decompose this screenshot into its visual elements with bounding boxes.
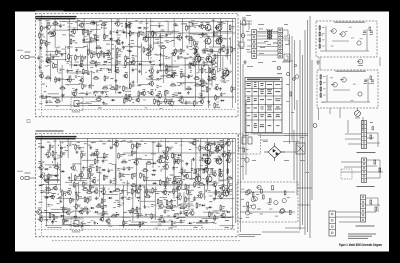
gap note text [27, 120, 30, 123]
right channel top label [219, 22, 222, 25]
left channel resistor R142 [157, 198, 162, 205]
left channel resistor R212 [215, 189, 220, 196]
right channel output transistor Q94 [194, 54, 201, 63]
right channel diode D118 [138, 63, 143, 65]
right channel resistor R52 [89, 21, 96, 24]
left channel junction [186, 205, 187, 206]
right channel transistor Q9 [45, 23, 51, 30]
left channel mid bus wire [69, 184, 213, 186]
left channel junction [58, 194, 59, 195]
left channel electrolytic C6 [40, 191, 45, 193]
right channel value label [40, 60, 44, 63]
left channel value label [162, 180, 166, 183]
right channel transistor Q93 [114, 67, 119, 74]
right channel electrolytic C195 [206, 49, 211, 51]
right channel value label [75, 61, 79, 64]
right channel value label [103, 63, 106, 66]
left channel value label [49, 166, 52, 169]
right channel wire h6 [94, 91, 109, 93]
right channel value label [175, 94, 178, 97]
right channel input jack [17, 50, 35, 59]
right channel value label [215, 62, 217, 65]
right channel resistor R219 [231, 46, 236, 53]
left channel wire h6 [135, 221, 146, 223]
left channel value label [204, 159, 207, 162]
right channel value label [156, 54, 159, 57]
right channel resistor R21 [53, 62, 58, 69]
right channel resistor R117 [138, 31, 143, 38]
left channel transistor Q208 [214, 146, 219, 153]
right channel value label [111, 48, 114, 51]
left channel wire v1b [43, 173, 45, 182]
right channel value label [86, 22, 89, 25]
left channel diode D66 [90, 207, 95, 209]
right channel value label [61, 48, 65, 51]
left channel value label [162, 150, 166, 153]
right channel value label [226, 52, 229, 55]
left channel right bus wire 2 [235, 139, 237, 223]
right channel capacitor C5 [37, 55, 43, 60]
power transformer T1 [267, 29, 272, 40]
left channel value label [176, 217, 179, 220]
right channel value label [165, 70, 168, 73]
left channel top label [38, 142, 40, 145]
left channel wire h59 [65, 181, 72, 183]
left channel transistor Q200 [204, 158, 209, 165]
left channel ground [213, 197, 216, 200]
right channel resistor R12 [46, 57, 51, 64]
right channel wire h25 [143, 36, 163, 38]
left channel transistor Q220 [219, 184, 225, 191]
right channel junction [101, 27, 102, 28]
left channel wire v11a [111, 139, 113, 149]
right channel resistor R169 [186, 25, 191, 32]
right channel value label [210, 69, 213, 72]
right channel wire h11 [50, 24, 61, 26]
right channel diode D39 [73, 64, 78, 66]
left channel capacitor C20 [54, 156, 60, 161]
right channel electrolytic C136 [159, 35, 164, 37]
left channel top label [152, 141, 156, 144]
left channel ground [216, 158, 219, 161]
left channel value label [93, 154, 95, 157]
left channel electrolytic C49 [79, 147, 84, 149]
right channel resistor R203 [214, 53, 219, 60]
left channel value label [138, 188, 142, 191]
right channel resistor R56 [91, 52, 96, 59]
right channel output transistor Q93 [215, 36, 222, 45]
right channel value label [172, 30, 175, 33]
left channel value label [190, 204, 194, 207]
right channel transistor Q156 [171, 50, 176, 57]
right channel wire v22a [188, 22, 190, 45]
connector area wires [336, 133, 383, 222]
left channel resistor R74 [96, 204, 103, 207]
right channel value label [199, 92, 203, 95]
middle area labels [240, 15, 309, 173]
right channel value label [225, 55, 227, 58]
left channel junction [193, 158, 194, 159]
left channel resistor R28 [61, 151, 66, 158]
right channel value label [71, 91, 74, 94]
right channel value label [161, 42, 163, 45]
left channel resistor R14 [45, 187, 52, 190]
left channel diode D166 [177, 154, 182, 156]
left channel wire h31 [213, 210, 228, 212]
right channel wire h40 [156, 101, 175, 103]
right channel resistor R78 [102, 86, 109, 89]
left channel resistor R40 [75, 144, 80, 151]
right channel resistor R183 [193, 76, 200, 79]
right channel value label [69, 69, 73, 72]
right channel resistor R124 [143, 46, 148, 53]
right channel top label [166, 20, 169, 23]
right channel value label [85, 101, 89, 104]
left channel value label [43, 160, 45, 163]
right channel top label [197, 20, 199, 23]
right channel ground [158, 24, 161, 27]
right channel value label [75, 42, 77, 45]
left channel resistor R121 [137, 212, 142, 219]
left channel top label [220, 139, 224, 142]
right channel transistor Q128 [146, 45, 152, 53]
left channel value label [53, 153, 56, 156]
left channel value label [122, 153, 125, 156]
right channel value label [106, 85, 108, 88]
right channel ground [132, 81, 135, 84]
right channel electrolytic C69 [93, 92, 98, 94]
misc parts right of table [286, 72, 295, 113]
left channel value label [153, 153, 156, 156]
left channel top label [180, 140, 183, 143]
right channel wire v5b [71, 57, 73, 68]
right channel transistor Q131 [148, 73, 153, 79]
left channel resistor R54 [82, 187, 89, 190]
left channel wire h25 [119, 224, 139, 226]
left channel top label [53, 140, 56, 143]
left channel top label [167, 140, 169, 143]
right channel capacitor C61 [93, 21, 99, 26]
right channel value label [45, 65, 48, 68]
left channel value label [231, 152, 235, 155]
left channel transistor Q144 [158, 215, 164, 223]
left channel value label [51, 188, 53, 191]
left channel wire v6a [75, 185, 77, 221]
left channel transistor Q39 [65, 209, 70, 216]
right channel value label [145, 106, 148, 109]
left channel resistor R186 [194, 181, 199, 188]
right channel wire h32 [124, 90, 131, 92]
right channel junction [155, 89, 156, 90]
left channel resistor R179 [185, 196, 190, 203]
right channel capacitor C177 [185, 100, 191, 105]
left channel junction [158, 166, 159, 167]
right channel value label [123, 66, 126, 69]
right channel electrolytic C210 [220, 23, 225, 25]
left channel title text bold [36, 136, 77, 140]
left channel ground [192, 158, 195, 161]
transistor Q20 below box A [357, 59, 363, 66]
right channel value label [165, 39, 167, 42]
left channel top label [137, 142, 141, 145]
left channel resistor R38 [70, 197, 75, 204]
left channel top label [61, 141, 63, 144]
right channel resistor R165 [180, 72, 185, 79]
right channel emitter resistor RE2 [203, 49, 205, 53]
left channel value label [229, 193, 232, 196]
right channel output transistor Q91 [215, 22, 222, 31]
left channel resistor R159 [174, 176, 179, 183]
right channel junction [159, 60, 160, 61]
right channel wire h4 [54, 78, 75, 80]
left channel capacitor C78 [102, 159, 108, 164]
right channel value label [86, 28, 89, 31]
right channel wire h52 [53, 29, 70, 31]
left channel value label [179, 203, 181, 206]
right channel resistor R150 [166, 68, 171, 75]
left channel resistor R21 [53, 165, 60, 168]
left channel value label [200, 196, 202, 199]
left channel resistor R222 [220, 204, 225, 211]
right channel wire h17 [176, 96, 194, 98]
left channel diode D33 [60, 215, 65, 217]
left channel value label [128, 154, 132, 157]
right channel wire v26a [213, 19, 215, 48]
speaker protect dashed box [237, 182, 298, 222]
right channel transistor Q205 [210, 68, 216, 76]
right channel wire v25a [207, 65, 209, 108]
left channel transistor Q181 [183, 210, 188, 216]
left channel wire h56 [47, 227, 61, 229]
left channel value label [182, 188, 186, 191]
left channel wire h38 [122, 216, 130, 218]
right channel wire h28 [148, 79, 161, 81]
left channel transistor Q3 [38, 164, 44, 171]
left channel junction [52, 221, 53, 222]
primary block labels [246, 29, 271, 54]
right channel value label [102, 26, 106, 29]
right channel ground [159, 53, 162, 56]
right channel wire v15a [137, 33, 139, 83]
right channel capacitor C59 [88, 84, 94, 89]
right channel junction [207, 24, 208, 25]
left channel value label [151, 153, 154, 156]
left channel wire h24 [220, 217, 231, 219]
right channel value label [96, 70, 98, 73]
right channel resistor R173 [189, 62, 194, 69]
right channel transistor Q186 [198, 22, 203, 29]
left channel value label [203, 196, 206, 199]
left channel top label [226, 141, 228, 144]
right channel value label [216, 42, 220, 45]
left channel transistor Q24 [49, 193, 54, 199]
meter driver dashed box U11 [317, 70, 378, 108]
left channel value label [120, 179, 122, 182]
left channel transistor Q167 [175, 157, 180, 164]
left channel wire v12a [115, 139, 117, 185]
right channel resistor R208 [215, 94, 220, 101]
right channel junction [69, 58, 70, 59]
left channel value label [91, 186, 94, 189]
right channel value label [87, 73, 90, 76]
right channel value label [77, 68, 79, 71]
right channel electrolytic C166 [180, 83, 185, 85]
right channel value label [223, 79, 225, 82]
left channel value label [215, 182, 218, 185]
left channel transistor Q189 [189, 209, 194, 216]
left channel capacitor C202 [206, 180, 212, 185]
left channel value label [205, 219, 208, 222]
left channel value label [123, 211, 127, 214]
right channel electrolytic C137 [157, 42, 162, 44]
left channel value label [164, 198, 166, 201]
left channel capacitor C88 [110, 179, 116, 184]
right channel transistor Q207 [214, 84, 219, 90]
right channel capacitor C16 [46, 99, 52, 104]
right channel resistor R22 [55, 76, 60, 83]
left channel wire h51 [215, 198, 234, 200]
left channel wire v10a [102, 185, 104, 218]
left channel wire h48 [57, 198, 74, 200]
left channel value label [211, 181, 215, 184]
left channel wire v19a [165, 139, 167, 190]
right channel wire v17b [153, 31, 155, 49]
right channel wire h35 [198, 97, 205, 99]
left channel upper mid rail wire [123, 152, 235, 154]
left channel resistor R199 [209, 150, 214, 157]
left channel diode D131 [152, 162, 157, 164]
left channel ground [59, 200, 62, 203]
right channel value label [67, 84, 70, 87]
right channel value label [41, 94, 44, 97]
left channel diode D1 [40, 146, 45, 148]
left channel value label [39, 201, 43, 204]
left channel junction [187, 163, 188, 164]
left channel value label [222, 155, 225, 158]
left channel wire h46 [40, 211, 59, 213]
left channel electrolytic C180 [185, 206, 190, 208]
right channel capacitor C141 [157, 69, 163, 74]
left channel junction [161, 160, 162, 161]
right channel value label [137, 84, 141, 87]
right channel value label [154, 42, 158, 45]
left channel transistor Q216 [221, 151, 226, 158]
right channel transistor Q144 [156, 91, 162, 99]
right channel capacitor C216 [220, 92, 226, 97]
left channel capacitor C192 [201, 157, 207, 162]
right channel wire v16a [146, 19, 148, 39]
right channel value label [220, 47, 223, 50]
left channel capacitor C45 [75, 191, 81, 196]
left channel wire v24a [200, 139, 202, 181]
right channel resistor R108 [129, 30, 134, 37]
left channel value label [108, 225, 112, 228]
right channel electrolytic C33 [67, 62, 72, 64]
right channel transistor Q36 [71, 28, 76, 35]
left channel wire v15b [139, 186, 141, 218]
left channel wire v27a [223, 139, 225, 188]
right channel wire h59 [129, 60, 150, 62]
left channel value label [91, 141, 93, 144]
left channel resistor R109 [130, 183, 137, 186]
right channel wire v7a [83, 19, 85, 43]
right channel junction [181, 37, 182, 38]
left channel resistor R145 [167, 146, 172, 153]
left channel value label [220, 179, 224, 182]
right channel top label [83, 22, 85, 25]
right channel value label [56, 46, 58, 49]
left channel junction [90, 147, 91, 148]
left channel value label [206, 206, 210, 209]
left channel resistor R194 [198, 182, 205, 185]
left channel value label [88, 196, 91, 199]
right channel transistor Q192 [199, 81, 204, 88]
left channel top label [99, 140, 102, 143]
right channel electrolytic C147 [166, 41, 171, 43]
left channel top label [47, 141, 50, 144]
right channel value label [123, 95, 125, 98]
right channel value label [108, 61, 111, 64]
right channel resistor R149 [166, 64, 171, 71]
right channel value label [205, 71, 209, 74]
right channel value label [216, 39, 219, 42]
right channel resistor R19 [56, 49, 61, 56]
right channel value label [150, 82, 153, 85]
right channel output transistor Q92 [204, 36, 211, 45]
right channel wire h7 [201, 50, 214, 52]
right channel wire v14a [129, 22, 131, 56]
right channel transistor Q158 [170, 72, 175, 79]
left channel wire h36 [165, 146, 173, 148]
right channel value label [117, 34, 121, 37]
left channel wire h1 [44, 195, 56, 197]
right channel wire v23b [198, 58, 200, 72]
right channel value label [190, 81, 193, 84]
left channel wire h60 [121, 174, 130, 176]
left channel resistor R19 [52, 150, 57, 157]
right channel resistor R101 [125, 55, 130, 62]
right channel wire v19b [171, 56, 173, 78]
right channel value label [141, 34, 144, 37]
right channel value label [47, 64, 49, 67]
left channel value label [127, 191, 131, 194]
right channel junction [122, 26, 123, 27]
right channel value label [174, 72, 177, 75]
left channel value label [167, 214, 169, 217]
left channel resistor R62 [89, 172, 94, 179]
left channel junction [196, 177, 197, 178]
right channel wire h53 [59, 53, 67, 55]
left channel value label [134, 212, 137, 215]
left channel resistor R9 [49, 144, 54, 151]
left channel value label [194, 226, 198, 229]
left channel value label [158, 207, 161, 210]
right channel value label [207, 78, 211, 81]
left channel value label [158, 224, 162, 227]
right channel ground [61, 94, 64, 97]
right channel transistor Q168 [178, 96, 184, 104]
right channel diode D98 [121, 31, 126, 33]
right channel wire v23a [194, 65, 196, 101]
right channel value label [42, 83, 45, 86]
right channel value label [49, 101, 53, 104]
right channel junction [133, 102, 134, 103]
left channel wire v12b [119, 193, 121, 208]
left channel capacitor C101 [123, 166, 129, 171]
left channel resistor R104 [123, 220, 128, 227]
left channel top label [190, 142, 193, 145]
right channel transistor Q181 [193, 49, 198, 56]
